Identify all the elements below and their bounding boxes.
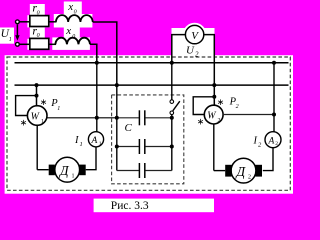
svg-text:A: A	[91, 136, 98, 146]
node V left on bus1	[170, 61, 174, 65]
inductor x row2	[55, 38, 90, 45]
svg-text:∗: ∗	[40, 97, 48, 107]
motor D2 left brush	[225, 165, 232, 177]
label P2	[229, 97, 239, 111]
ammeter A1	[88, 132, 103, 147]
node A2 feed on bus1	[272, 61, 276, 65]
svg-text:2: 2	[195, 51, 199, 59]
node W1 L-split	[35, 94, 39, 98]
wire W2 voltage loop	[193, 97, 214, 115]
white patch resistor row1	[27, 15, 49, 27]
label x row2	[65, 25, 75, 40]
white patch inductor row2	[52, 37, 90, 50]
outer dashed boundary	[7, 57, 290, 190]
label r0 row2	[32, 23, 39, 39]
resistor r0 row2	[30, 38, 49, 49]
node branch2 left	[115, 145, 119, 149]
terminal 2	[16, 42, 20, 46]
wire A1 down to motor right brush	[86, 147, 96, 170]
wattmeter W2 voltage drop from bus2	[213, 85, 215, 105]
capacitor C1	[139, 110, 144, 125]
wire V right branch down to bus2	[204, 35, 215, 86]
cap branch 3 wire left	[117, 170, 139, 172]
label P1	[50, 98, 60, 112]
svg-text:∗: ∗	[197, 117, 205, 127]
capacitor bank right rail	[171, 115, 173, 171]
node W2 L-split	[212, 95, 216, 99]
svg-text:2: 2	[236, 104, 239, 110]
svg-text:1: 1	[9, 37, 12, 43]
white patch r0 label row2	[30, 27, 45, 38]
motor D2	[231, 158, 256, 183]
svg-text:Д: Д	[235, 164, 247, 179]
label I1	[74, 135, 83, 148]
inductor x0 row1	[56, 15, 93, 22]
node W1-A1 junction	[95, 116, 99, 120]
bus line 2 (bottom)	[15, 84, 289, 86]
wire W2 bottom to motor left brush	[214, 170, 225, 172]
svg-text:0: 0	[74, 9, 77, 15]
wire terminal1 to R row1	[19, 21, 29, 23]
svg-text:∗: ∗	[217, 97, 225, 107]
wattmeter W2	[204, 105, 223, 124]
wire resistor2 to inductor2	[49, 43, 57, 45]
svg-text:0: 0	[37, 33, 40, 39]
motor D2 right brush	[256, 165, 263, 177]
wire A2 down to motor right brush	[263, 148, 273, 171]
wire W2 right to A2 branch	[223, 114, 274, 116]
node branch1 left	[115, 116, 119, 120]
U1 voltage arrow	[15, 25, 19, 41]
cap branch 1 wire right	[145, 117, 172, 119]
svg-text:1: 1	[99, 141, 102, 147]
switch feed from bus1	[171, 63, 173, 100]
white patch voltmeter branch	[172, 28, 215, 57]
svg-text:1: 1	[41, 119, 44, 125]
svg-text:0: 0	[37, 11, 40, 17]
white patch x0 label row1	[64, 2, 82, 15]
capacitor C2	[139, 139, 144, 154]
svg-text:Д: Д	[58, 163, 70, 178]
wattmeter W1	[27, 106, 47, 126]
svg-text:A: A	[268, 137, 275, 147]
white patch resistor row2	[27, 39, 49, 50]
node W1 on bus2	[35, 83, 39, 87]
capacitor bank left rail	[116, 85, 118, 170]
label I2	[253, 136, 263, 149]
motor D1 left brush	[49, 165, 55, 176]
cap branch 1 wire left	[117, 117, 139, 119]
node x0 feed on bus2	[115, 83, 119, 87]
wattmeter W1 voltage drop from bus2	[36, 85, 38, 106]
switch lower contact	[170, 111, 174, 115]
label U2	[186, 45, 199, 59]
switch blade	[173, 101, 180, 111]
wire x0 drop crossing bus1 down to bus2	[116, 63, 118, 85]
node branch1 right	[170, 116, 174, 120]
white patch U1 label	[0, 28, 14, 44]
svg-text:2: 2	[218, 118, 221, 124]
main white circuit panel	[5, 55, 293, 194]
caption white strip	[94, 199, 214, 213]
wire terminal2 to R row2	[19, 43, 29, 45]
wire W1 right to cap rail	[47, 117, 117, 119]
svg-text:x: x	[65, 25, 71, 37]
svg-text:∗: ∗	[20, 117, 28, 127]
cap branch 3 wire right	[145, 170, 172, 172]
wire W1 voltage loop	[16, 96, 37, 116]
node branch2 right	[170, 145, 174, 149]
svg-text:2: 2	[275, 141, 278, 147]
svg-text:x: x	[67, 1, 73, 13]
cap branch 2 wire right	[145, 146, 172, 148]
voltmeter V	[184, 24, 205, 45]
wire W1 bottom to motor left brush	[37, 169, 49, 171]
svg-text:I: I	[253, 136, 258, 147]
wire inductor1 to right drop	[93, 22, 117, 63]
svg-text:2: 2	[248, 175, 251, 181]
ammeter A2	[265, 132, 281, 148]
svg-text:C: C	[125, 122, 133, 134]
svg-text:U: U	[186, 45, 195, 57]
wire resistor1 to inductor1	[49, 21, 57, 23]
wire inductor2 to bus1	[90, 44, 97, 63]
label U1	[1, 28, 12, 43]
terminal 1	[16, 20, 20, 24]
svg-text:Рис. 3.3: Рис. 3.3	[111, 200, 149, 212]
wire V left branch	[172, 35, 186, 63]
node V right on bus2	[212, 83, 216, 87]
switch upper contact	[170, 100, 174, 104]
wire bus1 down to W1/A1 branch	[96, 63, 98, 132]
motor D1 right brush	[79, 165, 85, 176]
svg-text:I: I	[74, 135, 79, 146]
label x0 row1	[67, 1, 76, 16]
white patch r0 label row1	[30, 4, 45, 15]
bus line 1 (top)	[15, 62, 289, 64]
inner dashed capacitor box	[112, 95, 184, 184]
svg-text:0: 0	[72, 34, 75, 40]
motor D1	[55, 157, 80, 182]
svg-text:1: 1	[72, 174, 75, 180]
node x feed on bus1	[95, 61, 99, 65]
white patch x label row2	[64, 26, 80, 38]
wire W2 bottom to motor	[213, 124, 215, 171]
svg-text:1: 1	[57, 106, 60, 112]
white patch inductor row1	[54, 14, 93, 28]
cap branch 2 wire left	[117, 146, 139, 148]
capacitor C3	[139, 163, 144, 178]
wire W1 bottom to motor	[36, 125, 38, 169]
resistor r0 row1	[30, 16, 49, 27]
label r0 row1	[32, 1, 39, 17]
wire bus1 down to A2	[273, 63, 275, 132]
node W2-A2 junction	[272, 113, 276, 117]
svg-text:1: 1	[80, 141, 83, 148]
